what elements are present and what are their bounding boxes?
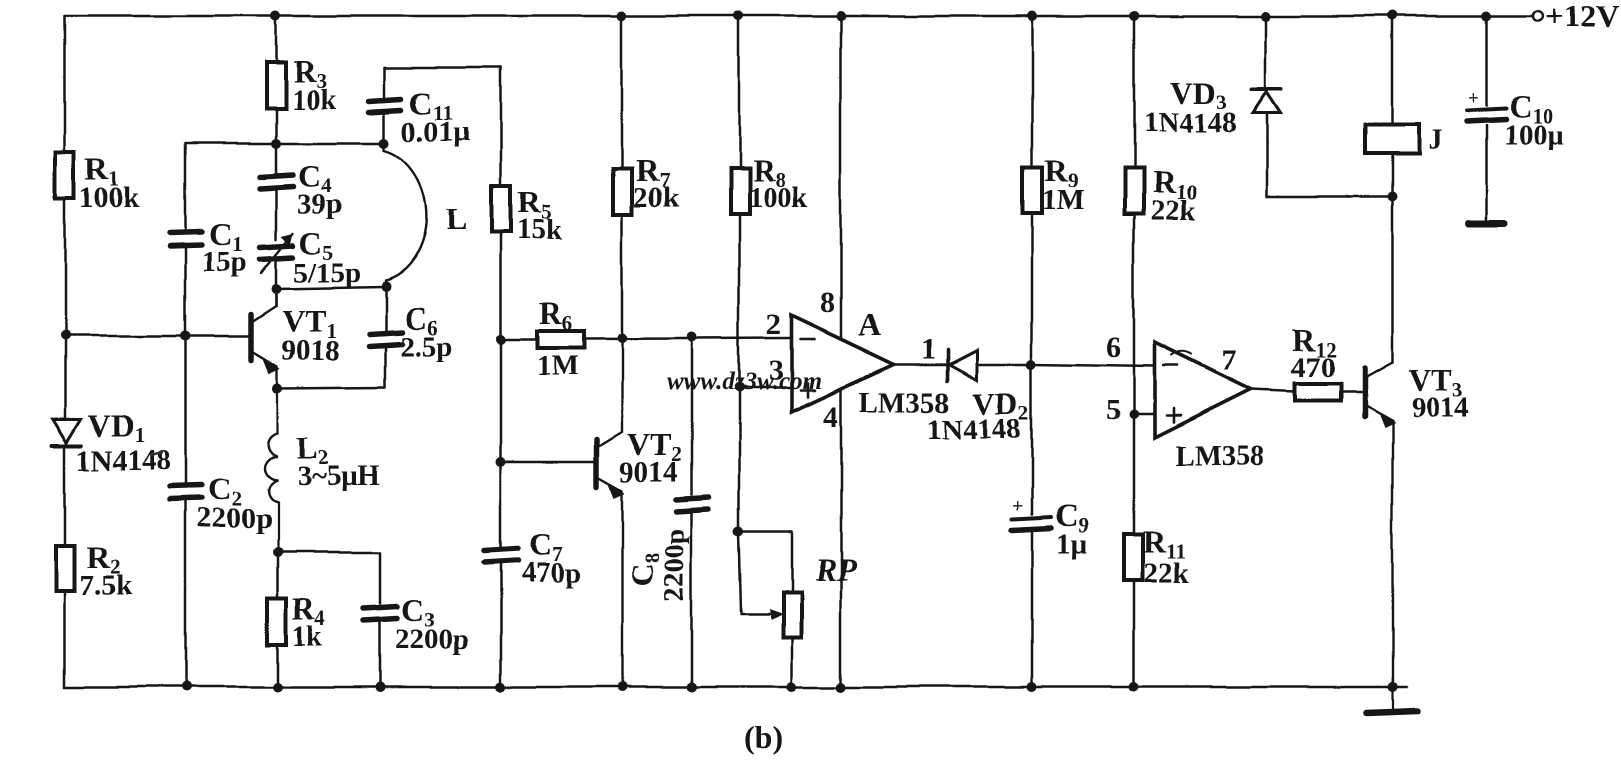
wire R9 C9 column: [1031, 16, 1034, 687]
svg-text:L: L: [446, 200, 467, 236]
resistor R9: [1023, 153, 1084, 217]
svg-text:VD1: VD1: [88, 408, 145, 448]
transistor VT1: [251, 288, 340, 388]
svg-text:C8: C8: [624, 552, 664, 586]
svg-text:2200p: 2200p: [395, 624, 469, 656]
+12V supply terminal: [1533, 0, 1618, 34]
wire op-amp A output: [894, 363, 947, 366]
resistor R4: [267, 590, 326, 652]
wire RP bottom: [791, 637, 794, 687]
svg-text:9014: 9014: [1411, 392, 1469, 424]
wire C5 to L bottom horizontal: [276, 287, 384, 289]
svg-text:LM358: LM358: [1175, 440, 1265, 472]
wire left supply column: [64, 16, 67, 687]
trimmer capacitor C5: [260, 224, 361, 289]
wire R10 R11 column: [1133, 16, 1136, 687]
wire R5 C7 column: [500, 68, 503, 687]
capacitor C4: [260, 157, 342, 220]
svg-text:100k: 100k: [748, 182, 809, 214]
capacitor C11: [369, 85, 470, 148]
resistor R7: [613, 152, 679, 214]
svg-text:1µ: 1µ: [1056, 528, 1088, 560]
wire VD3 column: [1266, 16, 1267, 197]
resistor R5: [492, 184, 563, 246]
wire C3 column: [379, 552, 382, 687]
resistor R10: [1124, 164, 1196, 227]
wire R7 column: [621, 16, 624, 338]
capacitor C7: [485, 526, 581, 589]
svg-text:15k: 15k: [517, 214, 563, 246]
C10 end plate: [1469, 220, 1505, 227]
svg-text:4: 4: [823, 400, 838, 433]
resistor R8: [730, 152, 809, 214]
wire C11 top segment: [384, 68, 387, 143]
resistor R6: [536, 295, 584, 382]
svg-text:R6: R6: [539, 295, 573, 335]
svg-text:9018: 9018: [282, 335, 340, 367]
svg-text:2200p: 2200p: [197, 503, 271, 535]
svg-text:1N4148: 1N4148: [928, 413, 1021, 445]
diode VD3: [1143, 74, 1282, 139]
ground: [1366, 687, 1417, 713]
wire R8 column: [738, 16, 741, 532]
wire feedback node horizontal: [186, 142, 385, 145]
resistor R11: [1124, 523, 1190, 589]
wire L2 bottom to C3 horizontal: [277, 551, 380, 554]
svg-text:1: 1: [921, 332, 936, 365]
svg-text:+: +: [1012, 495, 1023, 517]
wire R6 line to op-amp pin2: [501, 338, 791, 339]
svg-text:3~5µH: 3~5µH: [296, 460, 380, 492]
electrolytic capacitor C9: [1012, 495, 1089, 560]
resistor R2: [56, 539, 133, 602]
stray mark: [150, 452, 163, 455]
svg-text:RP: RP: [814, 551, 856, 587]
resistor R1: [56, 151, 141, 214]
wire VT2 base: [501, 460, 595, 463]
svg-text:15p: 15p: [202, 246, 247, 278]
svg-text:+12V: +12V: [1545, 0, 1618, 34]
transistor VT3: [1364, 362, 1469, 687]
wire R3 oscillator column: [275, 16, 278, 306]
op-amp U1A: [791, 306, 950, 418]
resistor R3: [266, 53, 337, 116]
capacitor C6: [369, 300, 452, 363]
wire top link to R5: [385, 67, 501, 70]
diode VD2: [928, 349, 1030, 445]
svg-text:5: 5: [1106, 393, 1121, 426]
svg-text:7: 7: [1221, 344, 1236, 377]
svg-text:J: J: [1428, 124, 1443, 156]
svg-text:20k: 20k: [633, 182, 679, 214]
svg-text:0.01µ: 0.01µ: [402, 116, 470, 148]
wire VT1 base line: [65, 335, 249, 338]
wire pin5: [1134, 413, 1155, 416]
wire C1/C2 column: [185, 143, 188, 687]
svg-text:7.5k: 7.5k: [80, 570, 133, 602]
wire RP wiper: [739, 532, 770, 613]
wire op-amp pin3: [739, 387, 791, 390]
svg-text:8: 8: [820, 286, 835, 319]
wire C6 column: [384, 287, 387, 387]
svg-text:100µ: 100µ: [1504, 119, 1565, 151]
svg-text:www.dz3w.com: www.dz3w.com: [667, 368, 822, 395]
svg-text:100k: 100k: [80, 182, 141, 214]
svg-text:39p: 39p: [297, 188, 342, 220]
inductor L2: [264, 388, 380, 552]
electrolytic capacitor C10: [1467, 87, 1565, 151]
svg-text:2200p: 2200p: [659, 528, 691, 602]
svg-text:5/15p: 5/15p: [293, 257, 361, 289]
svg-text:+: +: [1468, 87, 1479, 109]
wire VD2 to node: [977, 363, 1032, 366]
wire emitter node horizontal: [277, 387, 385, 388]
wire C10 column: [1486, 16, 1489, 219]
wire detector node to pin6: [1032, 364, 1155, 366]
svg-text:1N4148: 1N4148: [1143, 107, 1236, 139]
svg-text:1N4148: 1N4148: [77, 445, 170, 477]
inductor L: [385, 143, 467, 287]
svg-text:22k: 22k: [1150, 195, 1196, 227]
wire RP top link: [739, 532, 792, 592]
svg-text:2.5p: 2.5p: [400, 331, 452, 363]
svg-text:1k: 1k: [292, 620, 324, 652]
svg-text:470p: 470p: [521, 557, 581, 589]
svg-text:2: 2: [766, 308, 781, 341]
wire op-amp pin8 pin4 column: [840, 16, 843, 687]
wire relay column: [1391, 16, 1394, 197]
diode VD1: [52, 408, 170, 477]
capacitor C1: [170, 216, 247, 278]
wire C8 column: [691, 337, 694, 687]
svg-text:22k: 22k: [1144, 557, 1190, 589]
resistor R12: [1291, 322, 1340, 401]
wire VD3 to relay node: [1267, 196, 1392, 199]
op-amp U1B: [1155, 343, 1265, 472]
wire R4 column: [276, 552, 279, 687]
svg-text:(b): (b): [744, 719, 783, 755]
capacitor C3: [364, 592, 469, 656]
svg-text:A: A: [858, 306, 881, 342]
wire relay node to VT3 collector: [1391, 197, 1394, 362]
wire ground bottom rail: [65, 686, 1406, 689]
relay J: [1365, 124, 1443, 156]
node junction dots: [60, 11, 1492, 692]
capacitor C8: [624, 497, 709, 602]
transistor VT2: [597, 338, 682, 687]
svg-text:9014: 9014: [620, 456, 678, 488]
svg-text:1M: 1M: [1042, 185, 1084, 217]
svg-text:10k: 10k: [291, 84, 337, 116]
svg-text:6: 6: [1106, 331, 1121, 364]
potentiometer RP: [769, 551, 856, 637]
wire +12V top rail: [65, 15, 1533, 18]
svg-text:1M: 1M: [536, 350, 578, 382]
svg-text:470: 470: [1291, 352, 1335, 384]
capacitor C2: [170, 471, 271, 535]
wire op-amp B output to R12: [1251, 390, 1362, 392]
